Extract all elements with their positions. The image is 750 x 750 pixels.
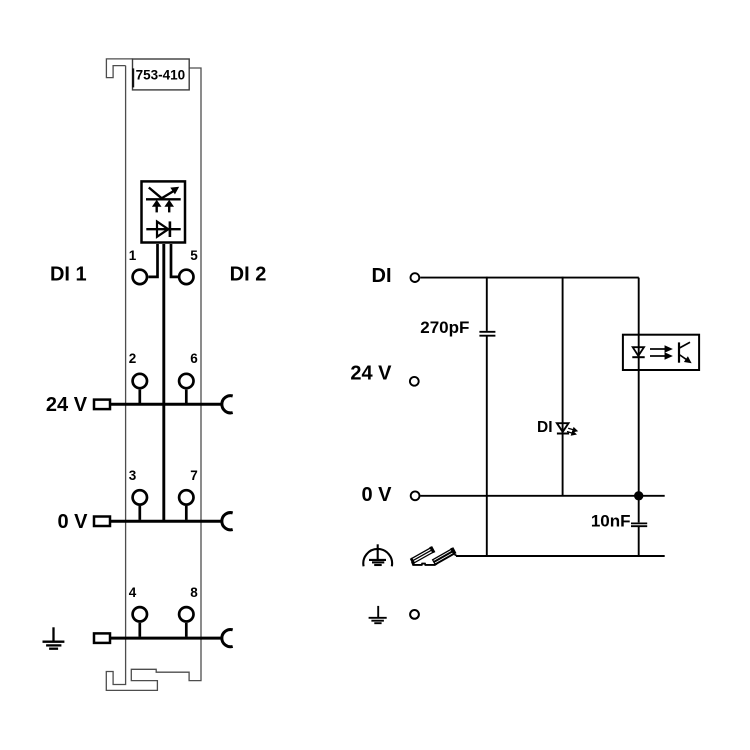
capacitor C1 270pF plates <box>479 331 495 333</box>
phototransistor Q1 base bar <box>678 342 680 362</box>
svg-text:7: 7 <box>190 468 198 483</box>
front rail bottom face <box>435 554 454 565</box>
shield dome symbol <box>363 544 392 566</box>
pin 2 contact circle <box>133 374 147 388</box>
wire box to pin 1 <box>148 244 157 277</box>
phototransistor Q1 collector <box>679 342 690 348</box>
svg-text:24 V: 24 V <box>350 363 392 385</box>
wire vertical 2 (DI LED branch) <box>562 277 564 495</box>
svg-text:753-410: 753-410 <box>136 68 186 83</box>
wire stub from DIN rail to shield rail <box>454 554 457 556</box>
dual LED indicator arrowhead <box>171 187 178 193</box>
front rail dark top face <box>434 552 453 563</box>
optocoupler light arrow 2 <box>650 354 671 359</box>
pin 1 contact circle <box>133 270 147 284</box>
earth square terminal <box>94 633 110 643</box>
front rail body <box>433 549 454 564</box>
0V terminal circle <box>411 491 420 500</box>
wire middle bus from box to 0V bus <box>162 244 165 520</box>
module left wall and bottom DIN-rail foot and right wall <box>106 66 201 691</box>
24V bus line <box>96 403 223 406</box>
optocoupler LED cathode bar <box>632 356 644 358</box>
LED1 up arrowhead <box>152 200 162 207</box>
pin 5 contact circle <box>179 270 193 284</box>
svg-text:DI 1: DI 1 <box>50 263 87 285</box>
optocoupler light arrow 1 <box>650 347 671 352</box>
svg-text:DI: DI <box>537 419 553 436</box>
back rail center ridge <box>413 550 432 560</box>
LED1 up arrow stem <box>155 205 157 213</box>
capacitor C2 10nF plates <box>631 522 647 524</box>
wire box to pin 5 <box>171 244 178 277</box>
LED2 up arrowhead <box>164 200 174 207</box>
pin 7 stem <box>185 506 188 520</box>
LED DI emission arrow 1 <box>568 428 577 432</box>
rail foot zigzag <box>412 562 437 565</box>
svg-text:DI 2: DI 2 <box>230 263 267 285</box>
optocoupler LED triangle <box>633 347 644 356</box>
0V crescent connector <box>222 513 233 530</box>
pin 8 stem <box>185 623 188 637</box>
earth bus line <box>96 637 223 640</box>
svg-text:0 V: 0 V <box>361 484 392 506</box>
phototransistor Q1 emitter with arrow <box>679 354 690 362</box>
svg-text:0 V: 0 V <box>57 511 88 533</box>
bottom earth ground symbol (right) <box>369 606 387 623</box>
svg-text:270pF: 270pF <box>420 318 469 337</box>
back rail right end cap <box>430 547 435 553</box>
dual LED indicator V-left stroke <box>149 188 162 199</box>
0V square terminal <box>94 517 110 527</box>
0V rail wire <box>420 495 664 497</box>
LED DI cathode bar <box>557 433 569 435</box>
front rail right end cap <box>451 548 456 555</box>
optocoupler box U2 <box>623 335 699 370</box>
pin 8 contact circle <box>179 607 193 621</box>
back rail left end cap <box>410 558 414 564</box>
dual LED indicator arrow shaft <box>161 191 174 199</box>
pin 4 contact circle <box>133 607 147 621</box>
svg-text:5: 5 <box>190 248 198 263</box>
pin 4 stem <box>138 623 141 637</box>
module outline top hook <box>106 59 132 78</box>
svg-text:1: 1 <box>129 248 137 263</box>
junction dot at 0V rail <box>634 491 643 500</box>
svg-text:6: 6 <box>190 351 198 366</box>
wire vertical 3 (optocoupler branch) <box>638 278 640 556</box>
DIN rail 3D symbol <box>410 547 456 565</box>
LED2 up arrow stem <box>168 205 170 213</box>
24V crescent connector <box>222 396 233 413</box>
24V terminal circle <box>410 377 419 386</box>
svg-text:8: 8 <box>190 585 198 600</box>
pin 7 contact circle <box>179 490 193 504</box>
dual LED indicator symbol bar <box>146 198 181 200</box>
svg-text:3: 3 <box>129 468 137 483</box>
DI terminal circle <box>411 273 420 282</box>
diode D1 cathode bar <box>169 221 172 237</box>
wire vertical 1 (270pF branch) <box>486 277 488 556</box>
back rail body <box>412 548 433 563</box>
diode D1 triangle <box>157 222 168 237</box>
DI rail wire <box>420 277 639 279</box>
svg-text:4: 4 <box>129 585 137 600</box>
svg-text:10nF: 10nF <box>591 512 631 531</box>
0V bus line <box>96 520 223 523</box>
svg-text:DI: DI <box>372 265 392 287</box>
pin 6 stem <box>185 390 188 403</box>
left earth ground symbol <box>43 627 65 648</box>
pin 3 stem <box>138 506 141 520</box>
LED DI triangle <box>557 423 569 432</box>
pin 3 contact circle <box>133 490 147 504</box>
diode D1 horizontal line <box>146 228 180 230</box>
24V square terminal <box>94 400 110 410</box>
svg-text:2: 2 <box>129 351 137 366</box>
pin 6 contact circle <box>179 374 193 388</box>
earth crescent connector <box>222 630 233 647</box>
shield rail wire <box>456 555 665 557</box>
bottom earth terminal circle <box>410 610 419 619</box>
label box left tick <box>132 68 134 87</box>
label box 753-410 <box>133 59 190 90</box>
LED DI emission arrow 2 <box>567 431 576 435</box>
pin 2 stem <box>138 390 141 403</box>
status LED box U1 <box>142 181 186 242</box>
svg-text:24 V: 24 V <box>46 394 88 416</box>
